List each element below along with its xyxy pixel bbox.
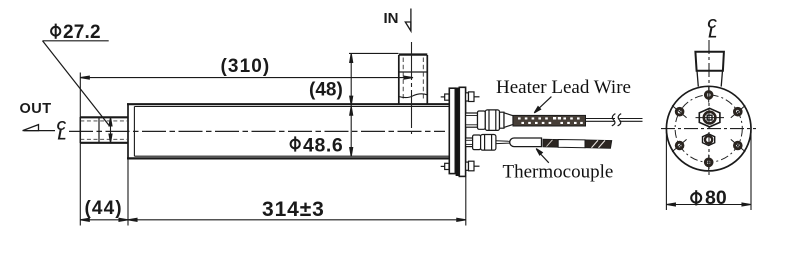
centerline main horizontal [69,130,445,132]
dimension (44) and 314±3 [80,218,466,221]
centre-line symbol top right [707,16,717,42]
extension line (48) top [349,52,398,54]
bolt top front [466,92,480,102]
wire break gap [615,117,619,124]
extension line flange right [465,177,467,226]
thermocouple leader arrow [536,149,549,163]
bolt circle dashed [675,95,742,162]
flange left plate [449,88,455,173]
OUT flow arrow [23,125,55,131]
thermocouple end view [703,134,715,146]
flange right plate [459,87,465,176]
svg-text:Heater Lead Wire: Heater Lead Wire [496,77,631,98]
svg-text:80: 80 [705,187,727,209]
svg-text:IN: IN [384,10,399,27]
heater leader arrow [534,97,551,113]
dimension (310) [80,76,413,79]
flange circle phi80 [666,86,751,171]
svg-text:(48): (48) [309,80,343,101]
phi48.6 text [291,136,300,151]
thermocouple wire to capsule [496,141,510,144]
svg-text:L: L [708,26,717,42]
bolt bottom front [466,161,480,171]
bolt top rear [441,94,449,100]
thermocouple capsule [510,138,542,147]
IN stub end view [695,52,724,87]
heater lead gland fitting [466,110,513,130]
svg-text:L: L [58,128,67,144]
heater braid [513,115,586,126]
wire break marks [612,114,621,126]
phi27.2 diameter arrows inside tube [109,117,112,143]
dimension phi80 [666,132,751,211]
center heater terminal end view [696,108,725,127]
bolt bottom rear [441,163,449,169]
heater body cylinder [127,103,449,159]
thermocouple gland fitting [466,135,496,151]
phi27.2 leader line [43,40,109,42]
bolt holes [672,87,745,170]
svg-text:314±3: 314±3 [262,198,325,221]
thermocouple sheath bands [543,139,612,148]
svg-text:48.6: 48.6 [303,135,343,157]
svg-text:27.2: 27.2 [63,22,101,43]
extension line left end [79,73,81,226]
phi27.2 text [51,24,60,39]
IN port tube [399,55,428,104]
heater lead wires [586,119,643,122]
svg-text:(44): (44) [85,198,123,219]
centre-line symbol left [57,118,67,144]
OUT tube [80,117,128,143]
end view vertical centerline [708,40,710,175]
svg-text:Thermocouple: Thermocouple [503,162,614,183]
svg-text:OUT: OUT [20,101,52,117]
IN port centerline vertical [411,42,413,134]
extension line body left face [127,159,129,226]
end view horizontal centerline [661,128,756,130]
IN flow arrow [405,9,411,32]
dimension (48) / phi48.6 vertical line [350,53,353,156]
svg-text:(310): (310) [221,56,271,77]
flange gasket dark band [456,88,459,177]
phi80 text [691,190,701,205]
